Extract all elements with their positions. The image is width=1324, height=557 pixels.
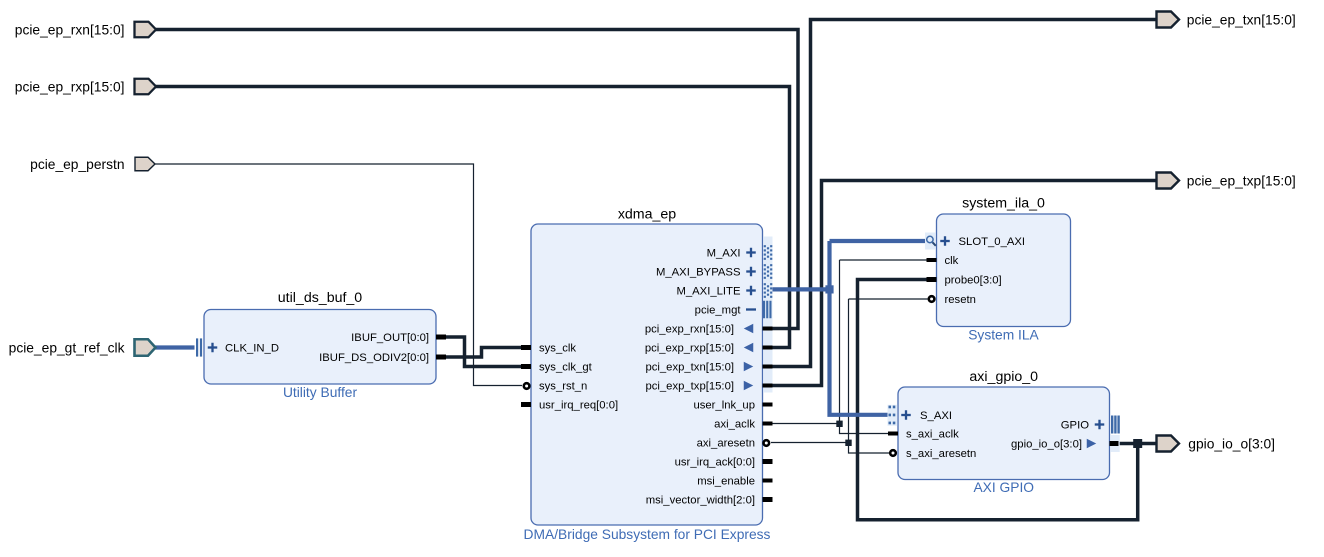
svg-text:gpio_io_o[3:0]: gpio_io_o[3:0] <box>1011 439 1082 451</box>
wire M_AXI_LITE interface net (blue) to SLOT_0_AXI and S_AXI <box>771 287 830 291</box>
svg-text:IBUF_DS_ODIV2[0:0]: IBUF_DS_ODIV2[0:0] <box>319 352 429 364</box>
wire IBUF_OUT to sys_clk_gt <box>445 337 522 367</box>
svg-text:usr_irq_req[0:0]: usr_irq_req[0:0] <box>539 400 618 412</box>
pin usr_irq_ack[0:0] (xdma_ep) <box>675 457 773 469</box>
svg-text:pcie_ep_gt_ref_clk: pcie_ep_gt_ref_clk <box>9 340 125 355</box>
svg-text:sys_rst_n: sys_rst_n <box>539 381 587 393</box>
svg-text:M_AXI_BYPASS: M_AXI_BYPASS <box>656 267 741 279</box>
svg-text:M_AXI: M_AXI <box>707 248 741 260</box>
junction M_AXI_LITE interface net <box>825 285 833 293</box>
wire pcie_ep_rxp bus net (port to pci_exp_rxp) <box>155 87 790 348</box>
svg-text:M_AXI_LITE: M_AXI_LITE <box>676 286 741 298</box>
pin CLK_IN_D (util_ds_buf_0) interface input <box>196 338 279 356</box>
pin sys_rst_n (xdma_ep) active-low <box>524 381 588 393</box>
svg-text:clk: clk <box>945 255 959 267</box>
svg-text:DMA/Bridge Subsystem for PCI E: DMA/Bridge Subsystem for PCI Express <box>524 527 771 542</box>
svg-text:axi_aclk: axi_aclk <box>714 419 755 431</box>
pin resetn (system_ila_0) active-low <box>929 294 976 306</box>
pin s_axi_aclk (axi_gpio_0) <box>888 429 959 441</box>
svg-text:pci_exp_txp[15:0]: pci_exp_txp[15:0] <box>645 381 734 393</box>
pin axi_aclk (xdma_ep) <box>714 419 772 431</box>
pin gpio_io_o[3:0] (axi_gpio_0) <box>1011 439 1118 451</box>
svg-text:SLOT_0_AXI: SLOT_0_AXI <box>959 236 1026 248</box>
svg-text:s_axi_aresetn: s_axi_aresetn <box>906 448 976 460</box>
port pcie_ep_gt_ref_clk (interface input) <box>9 339 156 356</box>
pin sys_clk_gt (xdma_ep) <box>521 362 593 374</box>
wire pcie_ep_rxn bus net (port to pci_exp_rxn) <box>155 30 798 329</box>
pin sys_clk (xdma_ep) <box>521 343 576 355</box>
svg-text:pcie_ep_rxp[15:0]: pcie_ep_rxp[15:0] <box>15 79 125 94</box>
junction axi_aresetn net <box>845 440 851 446</box>
svg-text:pci_exp_txn[15:0]: pci_exp_txn[15:0] <box>645 362 734 374</box>
pin usr_irq_req[0:0] (xdma_ep) <box>521 400 618 412</box>
pin probe0[3:0] (system_ila_0) <box>927 275 1002 287</box>
wire IBUF_DS_ODIV2 to sys_clk <box>445 348 522 358</box>
port pcie_ep_perstn (input) <box>30 157 155 172</box>
pin pci_exp_txn[15:0] (xdma_ep) <box>645 362 772 374</box>
pin pci_exp_txp[15:0] (xdma_ep) <box>645 381 772 393</box>
pin S_AXI (axi_gpio_0) connected interface <box>888 405 953 426</box>
block xdma_ep (DMA/Bridge Subsystem for PCI Express) <box>524 207 771 543</box>
expanded interface strip gpio_io_o (light blue) <box>1110 435 1120 452</box>
junction axi_aclk net <box>836 421 842 427</box>
svg-text:xdma_ep: xdma_ep <box>618 207 676 223</box>
port pcie_ep_txn[15:0] (output) <box>1157 12 1296 28</box>
svg-text:pci_exp_rxn[15:0]: pci_exp_rxn[15:0] <box>645 324 734 336</box>
wire pcie_ep_perstn net (port to sys_rst_n) <box>155 164 522 386</box>
svg-text:axi_gpio_0: axi_gpio_0 <box>969 369 1038 385</box>
svg-text:pcie_ep_rxn[15:0]: pcie_ep_rxn[15:0] <box>15 22 125 37</box>
svg-text:system_ila_0: system_ila_0 <box>962 196 1045 212</box>
svg-text:Utility Buffer: Utility Buffer <box>283 385 358 400</box>
pin pci_exp_rxn[15:0] (xdma_ep) <box>645 324 773 336</box>
pin M_AXI_BYPASS (xdma_ep) unconnected interface <box>656 264 772 279</box>
wire pci_exp_txn to pcie_ep_txn port <box>771 20 1157 367</box>
expanded interface strip pcie_mgt (light blue) <box>763 237 772 393</box>
svg-text:resetn: resetn <box>945 294 976 306</box>
svg-text:sys_clk: sys_clk <box>539 343 576 355</box>
svg-text:s_axi_aclk: s_axi_aclk <box>906 429 959 441</box>
svg-text:System ILA: System ILA <box>968 328 1039 343</box>
svg-text:pcie_mgt: pcie_mgt <box>695 305 742 317</box>
pin pci_exp_rxp[15:0] (xdma_ep) <box>645 343 773 355</box>
svg-text:S_AXI: S_AXI <box>920 410 952 422</box>
svg-text:AXI GPIO: AXI GPIO <box>973 480 1034 495</box>
pin msi_vector_width[2:0] (xdma_ep) <box>646 495 773 507</box>
port pcie_ep_txp[15:0] (output) <box>1157 173 1296 189</box>
pin IBUF_OUT[0:0] (util_ds_buf_0) <box>351 332 446 344</box>
svg-text:msi_enable: msi_enable <box>697 476 755 488</box>
block axi_gpio_0 (AXI GPIO) <box>898 369 1110 495</box>
pin SLOT_0_AXI (system_ila_0) monitor interface with magnifier <box>925 233 1025 250</box>
svg-text:sys_clk_gt: sys_clk_gt <box>539 362 593 374</box>
svg-text:msi_vector_width[2:0]: msi_vector_width[2:0] <box>646 495 755 507</box>
pin axi_aresetn (xdma_ep) active-low <box>697 438 770 450</box>
svg-text:user_lnk_up: user_lnk_up <box>693 400 755 412</box>
pin IBUF_DS_ODIV2[0:0] (util_ds_buf_0) <box>319 352 446 364</box>
svg-text:pci_exp_rxp[15:0]: pci_exp_rxp[15:0] <box>645 343 734 355</box>
svg-text:usr_irq_ack[0:0]: usr_irq_ack[0:0] <box>675 457 755 469</box>
port gpio_io_o[3:0] (output) <box>1157 436 1276 452</box>
pin pcie_mgt (xdma_ep) expanded interface <box>695 301 772 319</box>
svg-text:pcie_ep_txn[15:0]: pcie_ep_txn[15:0] <box>1187 12 1296 27</box>
wire axi_aresetn / resetn / s_axi_aresetn net <box>771 442 849 444</box>
block system_ila_0 (System ILA) <box>937 196 1071 343</box>
wire axi_aclk / clk / s_axi_aclk net <box>771 423 840 425</box>
wire pci_exp_txp to pcie_ep_txp port <box>771 181 1157 386</box>
pin msi_enable (xdma_ep) <box>697 476 772 488</box>
wire gpio_io_o net (gpio_io_o to port and feedback loop to probe0) <box>1118 442 1157 446</box>
block util_ds_buf_0 (Utility Buffer) <box>204 290 436 400</box>
pin M_AXI (xdma_ep) unconnected interface <box>707 245 773 260</box>
wire pcie_ep_gt_ref_clk interface wire (blue) <box>155 345 195 349</box>
pin M_AXI_LITE (xdma_ep) connected interface <box>676 283 772 298</box>
svg-text:CLK_IN_D: CLK_IN_D <box>225 343 279 355</box>
port pcie_ep_rxn[15:0] (input) <box>15 22 156 38</box>
svg-text:pcie_ep_txp[15:0]: pcie_ep_txp[15:0] <box>1187 173 1296 188</box>
pin user_lnk_up (xdma_ep) <box>693 400 772 412</box>
svg-text:probe0[3:0]: probe0[3:0] <box>945 275 1002 287</box>
junction gpio_io_o net <box>1133 439 1142 448</box>
svg-text:gpio_io_o[3:0]: gpio_io_o[3:0] <box>1188 436 1275 451</box>
pin GPIO (axi_gpio_0) connected interface <box>1061 416 1120 434</box>
svg-text:util_ds_buf_0: util_ds_buf_0 <box>278 290 363 306</box>
pin s_axi_aresetn (axi_gpio_0) active-low <box>890 448 976 460</box>
svg-text:IBUF_OUT[0:0]: IBUF_OUT[0:0] <box>351 332 429 344</box>
svg-text:pcie_ep_perstn: pcie_ep_perstn <box>30 157 124 172</box>
port pcie_ep_rxp[15:0] (input) <box>15 79 156 95</box>
pin clk (system_ila_0) <box>927 255 959 267</box>
svg-text:GPIO: GPIO <box>1061 420 1089 432</box>
svg-text:axi_aresetn: axi_aresetn <box>697 438 755 450</box>
